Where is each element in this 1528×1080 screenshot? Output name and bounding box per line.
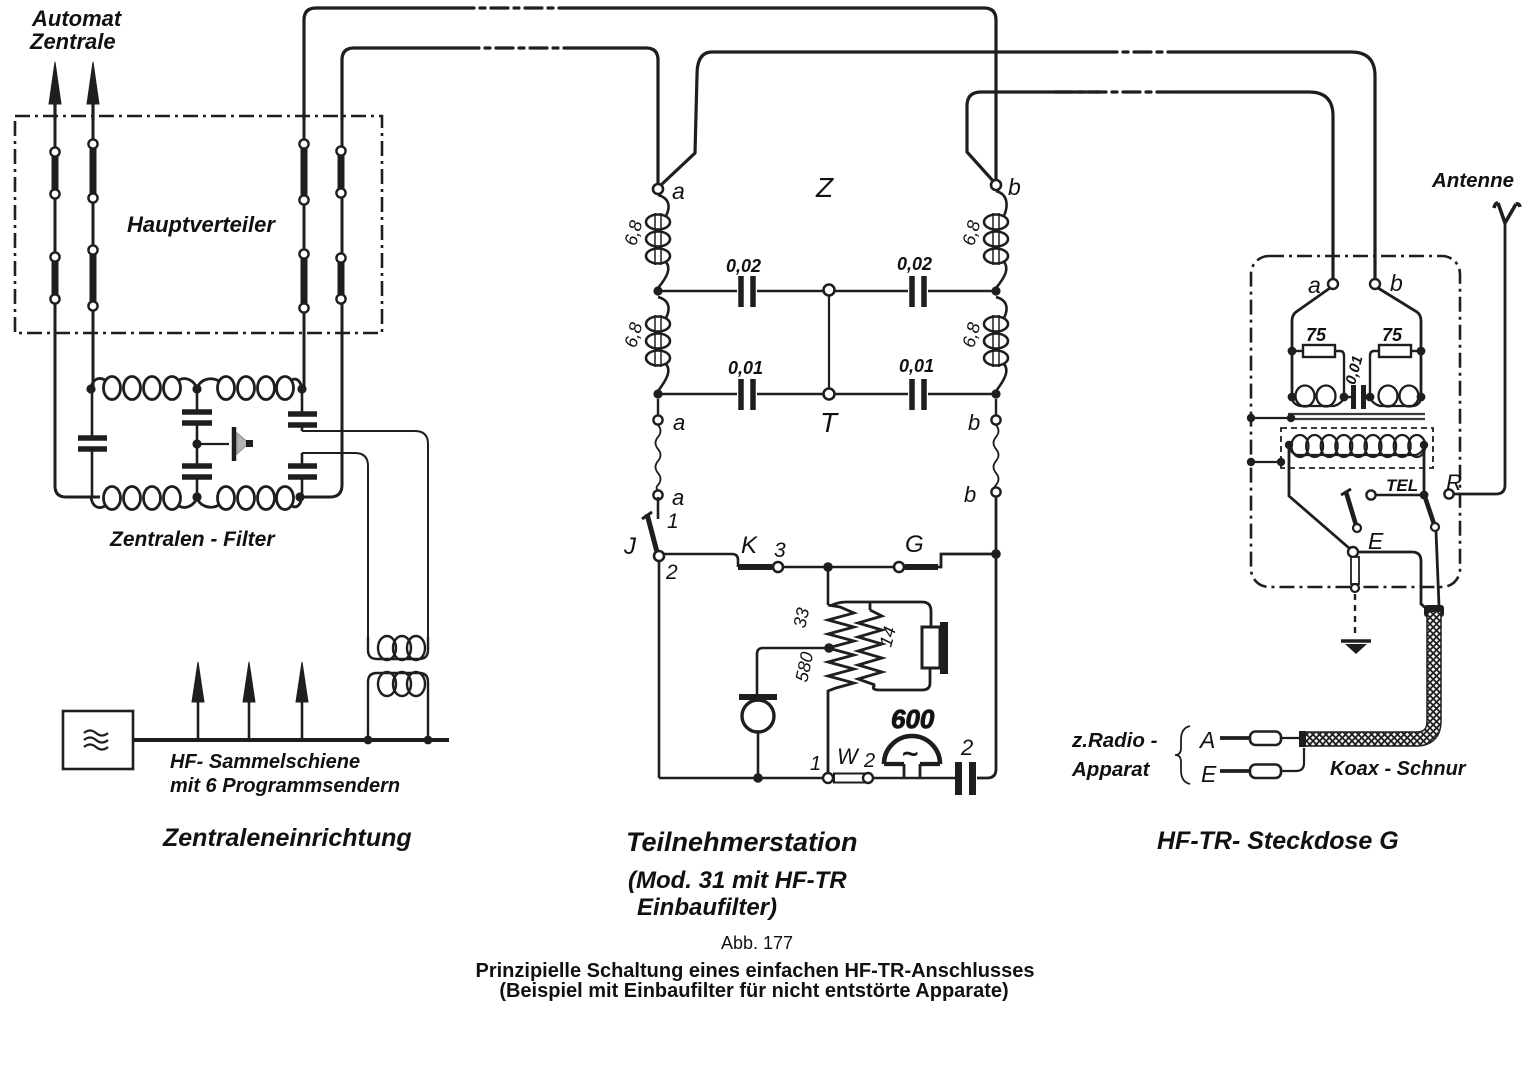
wire right branch down (1420, 351, 1423, 397)
node centre junction K-G (823, 562, 833, 572)
coil 6,8 upper-right (984, 191, 1008, 288)
svg-text:Antenne: Antenne (1431, 169, 1514, 192)
svg-text:a: a (672, 178, 685, 204)
label 6,8 lower-right (958, 320, 984, 349)
svg-text:2: 2 (665, 561, 678, 584)
svg-text:b: b (1008, 174, 1021, 200)
wire box edge to core (1247, 414, 1295, 422)
capacitor 2 (955, 735, 976, 795)
node TEL junction (1420, 491, 1429, 500)
contact TEL (1366, 476, 1424, 500)
node b-L2 junction (991, 389, 1000, 398)
svg-text:z.Radio -: z.Radio - (1071, 729, 1158, 752)
wire box edge to screen (1247, 458, 1285, 466)
fuse F4a (336, 146, 345, 197)
earth electrode in filter (197, 427, 253, 461)
svg-text:HF-TR- Steckdose G: HF-TR- Steckdose G (1157, 827, 1399, 855)
wire b' to right branch (1378, 288, 1421, 350)
label Zentralen-Filter (109, 528, 276, 551)
capacitor 0,01 left (658, 379, 824, 410)
coil left (Steckdose) (1292, 386, 1344, 407)
wire vertical 4 through Hauptverteiler to filter output (303, 60, 342, 497)
node filter centre (192, 439, 201, 448)
node b-L1 junction (991, 286, 1000, 295)
fuse F1a (50, 147, 59, 198)
svg-text:1: 1 (667, 510, 679, 533)
node secondary left (1285, 441, 1293, 449)
fuse F2a (88, 139, 97, 202)
label z.Radio-Apparat with brace (1071, 726, 1190, 784)
svg-text:a: a (1308, 272, 1321, 298)
node b3 (964, 482, 1001, 507)
wire E to coax (1358, 552, 1428, 610)
node E (1348, 528, 1384, 557)
label Teilnehmerstation (626, 827, 858, 857)
svg-text:Abb. 177: Abb. 177 (721, 933, 793, 953)
node a3 (653, 485, 684, 510)
svg-text:0,02: 0,02 (726, 256, 761, 276)
wire vertical 1 through Hauptverteiler (54, 118, 57, 488)
capacitor C-mid-bottom of Zentralen-Filter (182, 444, 212, 497)
label HF-TR-Steckdose G (1157, 827, 1399, 855)
wire resistor top to speaker (830, 602, 931, 627)
label Z (815, 172, 834, 203)
node left cap junction (1340, 393, 1349, 402)
wire right side down to rail (977, 554, 996, 778)
wire J down to rail (658, 561, 661, 778)
wire b3 down right side (995, 497, 998, 554)
node bus right coupling leg (424, 736, 433, 745)
svg-text:Einbaufilter): Einbaufilter) (637, 894, 777, 921)
svg-text:3: 3 (774, 539, 786, 562)
node b' (1370, 270, 1403, 296)
plug E (1201, 748, 1304, 787)
resistor 75 right (1370, 325, 1421, 394)
flexible cord a (656, 425, 661, 490)
wire vertical 2 through Hauptverteiler (92, 118, 95, 389)
svg-text:2: 2 (960, 735, 973, 760)
svg-text:0,01: 0,01 (728, 358, 763, 378)
coil 6,8 upper-left (646, 195, 670, 288)
node filter top right (297, 384, 306, 393)
node left branch bottom (1288, 393, 1297, 402)
switch G (894, 531, 996, 572)
node filter top left (86, 384, 95, 393)
wire centre Z-T (828, 296, 830, 389)
svg-text:R: R (1446, 470, 1462, 495)
Hauptverteiler dash-dot box (15, 116, 382, 333)
coil 6,8 lower-right (984, 297, 1008, 391)
node microphone-rail (753, 773, 763, 783)
capacitor C-right-bottom of Zentralen-Filter (288, 453, 317, 497)
node a-L2 junction (653, 389, 662, 398)
dashed wire to ground (1354, 594, 1356, 637)
arrow to Automat Zentrale (left) (49, 62, 61, 120)
wire junction to G contact (828, 566, 893, 568)
caption line 2 (499, 980, 1008, 1002)
node b2 with cord (968, 399, 1001, 435)
node right branch bottom (1417, 393, 1426, 402)
ground (1341, 641, 1371, 654)
wire lever to coax (1436, 531, 1439, 606)
coil right (Steckdose) (1370, 386, 1421, 407)
wire K to centre junction (784, 566, 828, 568)
node filter bottom right (295, 492, 304, 501)
wire a' to left branch (1292, 288, 1330, 350)
node a (Teilnehmerstation top left) (653, 178, 685, 204)
label 33 (790, 606, 814, 630)
wire secondary left to E (1289, 449, 1349, 548)
coupling transformer upper winding (368, 636, 428, 660)
svg-text:Hauptverteiler: Hauptverteiler (127, 212, 276, 237)
node a2 with cord (653, 399, 685, 435)
label 0,02 right (897, 254, 932, 274)
svg-text:b: b (968, 410, 980, 435)
wire rail W to transformer (873, 777, 956, 780)
filter coil L2 (top right) (197, 377, 302, 400)
wire secondary right to TEL junction (1423, 449, 1426, 495)
svg-text:600: 600 (891, 704, 935, 734)
svg-text:Zentrale: Zentrale (29, 29, 116, 54)
switch W (810, 744, 875, 783)
svg-text:E: E (1368, 528, 1384, 554)
wire line1 Hauptverteiler to node b (top horizontal) (304, 8, 996, 180)
svg-text:~: ~ (902, 739, 918, 769)
capacitor 0,02 right (834, 276, 996, 307)
node Z (centre top circle) (824, 285, 835, 296)
svg-text:1: 1 (810, 753, 821, 775)
svg-text:b: b (964, 482, 976, 507)
node resistor tap (824, 643, 834, 653)
node T (centre bottom circle) (820, 389, 839, 439)
switch K contact 3 (738, 532, 786, 572)
transformer 600 (884, 704, 940, 778)
label 0,01 right (899, 356, 934, 376)
svg-text:Zentraleneinrichtung: Zentraleneinrichtung (162, 824, 412, 852)
wire filter to coupling transformer (upper) (302, 431, 428, 637)
svg-text:Koax - Schnur: Koax - Schnur (1330, 758, 1467, 780)
svg-text:(Mod. 31 mit HF-TR: (Mod. 31 mit HF-TR (628, 867, 847, 894)
wire filter to coupling transformer (lower) (302, 453, 368, 637)
node filter bottom mid (192, 492, 201, 501)
filter coil L3 (bottom left) (91, 487, 197, 510)
wire HF bus (133, 738, 449, 742)
label HF-Sammelschiene (170, 751, 400, 797)
caption Abb. 177 (721, 933, 793, 953)
coax cable (1303, 612, 1434, 739)
svg-text:TEL: TEL (1386, 476, 1418, 495)
wire line2 Hauptverteiler to node a (second horizontal) (342, 48, 658, 184)
node a' (1308, 272, 1338, 298)
svg-text:A: A (1198, 727, 1215, 753)
svg-text:mit 6 Programmsendern: mit 6 Programmsendern (170, 775, 400, 797)
switch J (623, 497, 679, 584)
capacitor 0,02 left (658, 276, 824, 307)
fuse F3b (299, 249, 308, 312)
switch lever left (TEL) (1341, 489, 1361, 532)
resistor 33/580 zigzag (828, 605, 854, 774)
svg-text:G: G (905, 531, 924, 558)
label 6,8 upper-right (958, 218, 984, 247)
capacitor C-left of Zentralen-Filter (78, 389, 107, 497)
svg-text:Prinzipielle Schaltung eines e: Prinzipielle Schaltung eines einfachen H… (475, 960, 1034, 982)
fuse F4b (336, 253, 345, 303)
label 0,02 left (726, 256, 761, 276)
svg-text:(Beispiel mit Einbaufilter für: (Beispiel mit Einbaufilter für nicht ent… (499, 980, 1008, 1002)
fuse F3a (299, 139, 308, 204)
HF-TR-Steckdose dash-dot box (1251, 256, 1460, 587)
loudspeaker (922, 622, 948, 674)
bus arrow 2 (243, 662, 255, 740)
node G-right junction (991, 549, 1001, 559)
svg-text:75: 75 (1382, 325, 1403, 345)
coupling transformer lower winding (368, 672, 428, 740)
svg-text:0,02: 0,02 (897, 254, 932, 274)
svg-text:Teilnehmerstation: Teilnehmerstation (626, 827, 858, 857)
resistor 14 zigzag (858, 610, 882, 685)
caption line 1 (475, 960, 1034, 982)
svg-text:Z: Z (815, 172, 834, 203)
filter coil L4 (bottom right) (197, 487, 302, 510)
screen dashed box (1281, 428, 1433, 468)
label 14 (876, 624, 901, 649)
bus arrow 3 (296, 662, 308, 740)
capacitor C-mid-top of Zentralen-Filter (182, 389, 212, 444)
node filter top mid (192, 384, 201, 393)
svg-text:T: T (820, 407, 839, 438)
label 6,8 upper-left (620, 218, 646, 247)
wire node b to Steckdose a' (967, 92, 1333, 279)
svg-text:Apparat: Apparat (1071, 758, 1151, 781)
wire J to K (664, 554, 738, 567)
svg-text:2: 2 (863, 750, 875, 772)
wire rail left (659, 777, 823, 780)
microphone (739, 697, 777, 778)
svg-text:Automat: Automat (31, 6, 123, 31)
node left branch top (1288, 347, 1297, 356)
wire centre junction down to resistor (827, 567, 830, 605)
HF source box (63, 711, 133, 769)
svg-text:b: b (1390, 270, 1403, 296)
contact R (1444, 470, 1462, 499)
wire tap to microphone (757, 648, 829, 694)
svg-text:K: K (741, 532, 758, 559)
svg-text:75: 75 (1306, 325, 1327, 345)
bus arrow 1 (192, 662, 204, 740)
fuse link below E (1351, 557, 1359, 592)
wire resistor bottom to speaker (873, 669, 930, 690)
filter coil L1 (top left) (91, 377, 197, 400)
secondary coil (Steckdose) (1289, 435, 1425, 457)
label 580 (791, 650, 817, 684)
resistor 75 left (1292, 325, 1344, 394)
node secondary right (1420, 441, 1428, 449)
label Antenne (1431, 169, 1514, 192)
label Koax-Schnur (1330, 758, 1467, 780)
svg-text:HF- Sammelschiene: HF- Sammelschiene (170, 751, 360, 773)
svg-text:a: a (672, 485, 684, 510)
label Mod.31 (628, 867, 847, 921)
node right cap junction (1366, 393, 1375, 402)
fuse F2b (88, 245, 97, 310)
svg-text:E: E (1201, 761, 1217, 787)
svg-text:0,01: 0,01 (899, 356, 934, 376)
plug A (1198, 727, 1306, 753)
label 0,01 left (728, 358, 763, 378)
svg-text:33: 33 (790, 606, 814, 630)
wire R to antenna (1454, 222, 1505, 494)
node coax start (1424, 605, 1444, 617)
capacitor 0,01 right (834, 379, 996, 410)
antenna (1494, 203, 1520, 223)
wire vertical 3 through Hauptverteiler (303, 118, 306, 389)
wire vertical 1 into filter bottom (55, 486, 100, 497)
arrow to Automat Zentrale (right) (87, 62, 99, 120)
node b (Teilnehmerstation top right) (991, 174, 1021, 200)
coil 6,8 lower-left (646, 297, 670, 391)
node bus left coupling leg (364, 736, 373, 745)
capacitor 0,01 (Steckdose) (1342, 354, 1372, 409)
fuse F1b (50, 252, 59, 303)
wire left branch down (1291, 351, 1294, 397)
label Automat Zentrale (29, 6, 123, 54)
svg-text:Zentralen - Filter: Zentralen - Filter (109, 528, 276, 551)
label Zentraleneinrichtung (162, 824, 412, 852)
svg-text:J: J (623, 533, 637, 560)
node right branch top (1417, 347, 1426, 356)
wire node a to Steckdose b' (661, 52, 1375, 279)
svg-text:W: W (837, 744, 860, 769)
node a-L1 junction (653, 286, 662, 295)
capacitor C-right-top of Zentralen-Filter (288, 389, 317, 431)
label 6,8 lower-left (620, 320, 646, 349)
transformer core lines (1288, 414, 1425, 419)
switch lever right (1425, 497, 1439, 531)
svg-text:a: a (673, 410, 685, 435)
flexible cord b (994, 425, 999, 490)
